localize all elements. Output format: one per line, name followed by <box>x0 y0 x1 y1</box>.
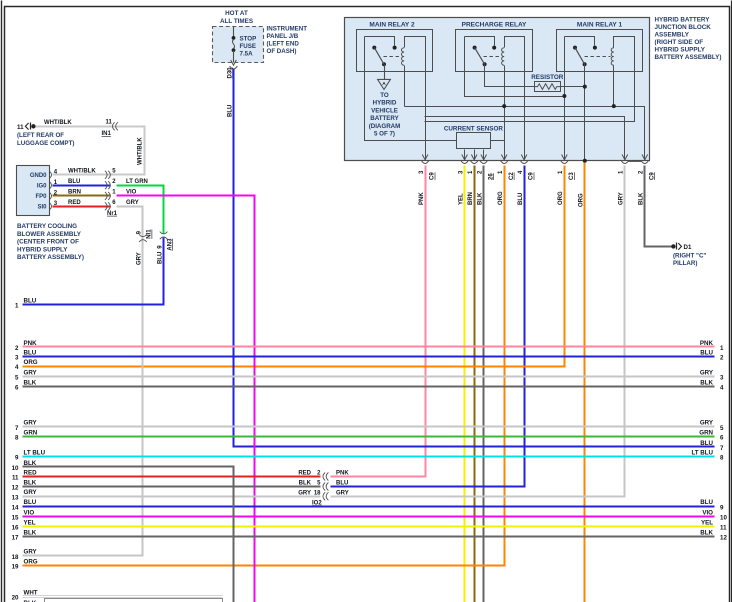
pin 1 BRN at x=474.2 <box>471 155 477 160</box>
svg-text:C9: C9 <box>529 172 535 180</box>
PC coil <box>502 48 505 65</box>
connector Nr1 <box>105 171 110 179</box>
svg-text:PRECHARGE RELAY: PRECHARGE RELAY <box>462 21 527 28</box>
MR1 switch arm <box>575 48 585 65</box>
row wire GRN L8 R6 y=436.7 <box>23 436 715 438</box>
svg-text:YEL: YEL <box>24 519 36 526</box>
svg-text:GRY: GRY <box>700 369 714 376</box>
MR1 fixed contact left <box>573 46 577 50</box>
resistor R box <box>535 82 561 92</box>
svg-text:CURRENT SENSOR: CURRENT SENSOR <box>444 125 504 132</box>
pin 3 C9 PNK at x=425.1 <box>422 155 428 160</box>
svg-text:BLU: BLU <box>336 481 348 487</box>
svg-text:1: 1 <box>15 303 19 310</box>
svg-text:BATTERY COOLING: BATTERY COOLING <box>17 223 77 230</box>
svg-text:19: 19 <box>12 564 19 571</box>
bottom component box (clipped) <box>45 599 223 602</box>
PC contact exit wire to ORG C3 node <box>465 37 565 97</box>
svg-text:4: 4 <box>720 385 724 392</box>
wire LT GRN from Nr1 to AN3 <box>117 186 164 234</box>
svg-text:PNK: PNK <box>24 340 38 347</box>
junction dot PC coil/ORG <box>502 104 506 108</box>
junction dot MR1 coil/ground bus <box>612 104 616 108</box>
wire BLU from pin 4 C9 to IO2 <box>331 166 525 487</box>
svg-text:HYBRID SUPPLY: HYBRID SUPPLY <box>655 47 706 54</box>
svg-text:GRY: GRY <box>24 549 38 556</box>
svg-text:PNK: PNK <box>419 192 425 205</box>
current sensor BRN stub <box>474 150 476 160</box>
wire VIO from Nr1 off-page <box>117 196 255 602</box>
MR2 coil <box>401 48 404 65</box>
PC switch wire to resistor <box>485 65 535 87</box>
PC switch arm <box>475 48 485 65</box>
pin C9 bracket GRY-BLK <box>629 161 642 163</box>
PC contact feed wire <box>465 37 495 46</box>
off-page arrow A to hybrid vehicle battery <box>378 79 391 89</box>
svg-text:2: 2 <box>720 355 724 362</box>
svg-text:INSTRUMENT: INSTRUMENT <box>267 25 308 32</box>
svg-text:(DIAGRAM: (DIAGRAM <box>369 123 401 130</box>
relay K-PC PRECHARGE RELAY box <box>456 30 533 72</box>
svg-text:BLU: BLU <box>24 499 37 506</box>
wire BLU from AN3 to row 1 <box>23 238 164 305</box>
wire BLK from pin 2 C9 to ground D1 <box>645 166 672 247</box>
svg-text:PNK: PNK <box>700 340 714 347</box>
wire BLK row 10 off-page <box>23 467 234 602</box>
MR1 coil bottom wire to ground bus <box>613 66 615 107</box>
wire YEL from current sensor off-page <box>464 166 466 602</box>
MR2 switch arm <box>374 48 384 65</box>
svg-text:STOP: STOP <box>240 35 257 42</box>
blower pin bracket 3 <box>49 203 51 210</box>
svg-text:11: 11 <box>720 525 727 532</box>
svg-text:Nr1: Nr1 <box>107 211 118 217</box>
MR2 common contact <box>382 62 386 66</box>
wire ORG off-page from MR1 switch <box>584 163 586 602</box>
svg-text:BLK: BLK <box>700 379 713 386</box>
svg-text:10: 10 <box>720 515 727 522</box>
row wire VIO L15 R10 y=516.5 <box>23 516 715 518</box>
svg-text:SI0: SI0 <box>37 205 47 211</box>
svg-text:15: 15 <box>12 515 19 522</box>
svg-text:TO: TO <box>380 92 389 99</box>
svg-text:(LEFT REAR OF: (LEFT REAR OF <box>17 132 64 139</box>
svg-text:ORG: ORG <box>558 191 564 205</box>
svg-text:A: A <box>382 81 386 87</box>
row wire BLK L17 R12 y=536.5 <box>23 536 715 538</box>
svg-text:BLU: BLU <box>518 193 524 205</box>
svg-text:7: 7 <box>15 425 19 432</box>
svg-text:BLU: BLU <box>68 179 80 185</box>
current sensor box <box>457 133 491 149</box>
ORG off-page junction dot at box edge <box>583 159 587 163</box>
wire GRY from pin 1 to IO2 <box>331 166 625 497</box>
svg-text:11: 11 <box>106 120 113 126</box>
pin 1 C3 ORG at x=564.4 <box>562 155 568 160</box>
svg-text:C3: C3 <box>569 172 575 180</box>
wire BLU from fuse D30 to row BLU-7R <box>234 69 715 447</box>
svg-text:HYBRID SUPPLY: HYBRID SUPPLY <box>17 246 68 253</box>
MR1 fixed contact right <box>593 46 597 50</box>
row wire WHT L20 y=596.5 <box>23 595 223 597</box>
blower pin bracket 2 <box>49 192 51 199</box>
svg-text:(RIGHT "C": (RIGHT "C" <box>673 253 706 260</box>
svg-text:AN3: AN3 <box>167 238 173 251</box>
wire ORG from pin 1 C3 to row 4 <box>23 166 565 367</box>
svg-text:11: 11 <box>17 124 24 131</box>
svg-text:FP0: FP0 <box>35 194 47 200</box>
coil supply bus to GRY pin 1 <box>425 117 625 160</box>
svg-text:IO2: IO2 <box>312 500 322 506</box>
svg-text:7.5A: 7.5A <box>240 50 254 57</box>
current sensor right wire <box>491 140 505 142</box>
MR2 fixed contact left <box>372 46 376 50</box>
svg-text:GRN: GRN <box>24 430 38 437</box>
svg-text:12: 12 <box>12 485 19 492</box>
row wire GRY L5 R3 y=376.5 <box>23 376 715 378</box>
svg-text:VIO: VIO <box>126 190 137 196</box>
svg-text:9: 9 <box>15 455 19 462</box>
svg-text:BLU: BLU <box>24 349 37 356</box>
svg-text:7: 7 <box>720 445 724 452</box>
svg-text:RED: RED <box>68 200 81 206</box>
svg-text:BRN: BRN <box>468 192 474 205</box>
PC coil top wire to BLU pin 4 C9 <box>505 37 525 160</box>
svg-text:BLU: BLU <box>700 499 713 506</box>
MR2 switch wire to battery arrow <box>384 65 386 80</box>
junction dot resistor/MR1 switch <box>583 85 587 89</box>
svg-text:GRY: GRY <box>336 491 349 497</box>
row wire BLK L12 R- y=486.5 <box>23 486 321 488</box>
row wire GRY L7 R5 y=426.8 <box>23 426 715 428</box>
svg-text:BLK: BLK <box>24 379 37 386</box>
MR1 coil <box>611 48 614 65</box>
svg-text:NI1: NI1 <box>147 229 153 239</box>
svg-text:HYBRID: HYBRID <box>373 100 397 107</box>
svg-text:C9: C9 <box>430 172 436 180</box>
row wire BLU L3 R2 y=356.5 <box>23 356 715 358</box>
pin 3 YEL at x=464.6 <box>462 155 468 160</box>
svg-text:IN1: IN1 <box>102 131 112 137</box>
svg-text:9: 9 <box>720 504 724 511</box>
svg-text:BATTERY: BATTERY <box>370 115 399 122</box>
current sensor YEL stub <box>464 150 466 160</box>
relay K-MR2 MAIN RELAY 2 box <box>357 30 433 72</box>
connector IN1 <box>112 122 117 130</box>
connector AN3 LT GRN to BLU <box>160 232 168 240</box>
svg-text:FUSE: FUSE <box>240 43 257 50</box>
svg-text:RED: RED <box>24 469 38 476</box>
svg-text:GND0: GND0 <box>30 173 47 179</box>
stop fuse 7.5A <box>233 27 235 39</box>
svg-text:BATTERY ASSEMBLY): BATTERY ASSEMBLY) <box>655 54 722 61</box>
svg-text:BLK: BLK <box>700 529 713 536</box>
svg-text:3: 3 <box>720 375 724 382</box>
pin 2 26 BLK at x=483.7 <box>481 155 487 160</box>
wire PNK from pin 3 C9 to IO2 <box>331 166 426 477</box>
svg-text:17: 17 <box>12 535 19 542</box>
svg-text:ASSEMBLY: ASSEMBLY <box>655 32 690 39</box>
wire BRN from current sensor off-page <box>474 166 476 602</box>
svg-text:BLK: BLK <box>299 481 312 487</box>
svg-text:VIO: VIO <box>702 509 713 516</box>
svg-text:BLU: BLU <box>700 349 713 356</box>
svg-text:GRY: GRY <box>24 369 38 376</box>
MR2 contact exit wire to current sensor <box>365 37 457 141</box>
svg-text:WHT/BLK: WHT/BLK <box>138 137 144 165</box>
svg-text:LT BLU: LT BLU <box>24 450 46 457</box>
page border frame <box>1 1 3 602</box>
svg-text:18: 18 <box>12 554 19 561</box>
wire BLK from current sensor off-page <box>483 166 485 602</box>
svg-text:PANEL J/B: PANEL J/B <box>267 33 299 40</box>
PC coil bottom wire to ORG pin 1 C2 <box>504 66 506 160</box>
pin 1 GRY at x=624.9 <box>622 155 628 160</box>
pin 1 C2 ORG at x=504.2 <box>501 155 507 160</box>
svg-text:RESISTOR: RESISTOR <box>531 74 564 81</box>
current sensor BLK stub <box>483 150 485 160</box>
svg-text:(RIGHT SIDE OF: (RIGHT SIDE OF <box>655 39 704 46</box>
svg-text:YEL: YEL <box>701 519 713 526</box>
svg-text:HOT AT: HOT AT <box>225 10 248 17</box>
battery cooling blower assembly box <box>17 166 50 216</box>
svg-text:3: 3 <box>15 355 19 362</box>
PC fixed contact left <box>473 46 477 50</box>
svg-text:(LEFT END: (LEFT END <box>267 40 300 47</box>
MR2 fixed contact right <box>393 46 397 50</box>
svg-text:D30: D30 <box>227 67 233 79</box>
svg-text:WHT/BLK: WHT/BLK <box>68 169 96 175</box>
MR1 contact exit wire to ORG pin 1 C3 <box>564 37 566 160</box>
svg-text:LT GRN: LT GRN <box>126 179 148 185</box>
svg-text:ORG: ORG <box>24 558 38 565</box>
resistor element <box>534 84 561 90</box>
svg-text:HYBRID BATTERY: HYBRID BATTERY <box>655 17 711 24</box>
svg-text:IG0: IG0 <box>37 184 47 190</box>
svg-text:BLU: BLU <box>227 105 233 117</box>
hybrid battery junction block assembly box <box>345 18 650 161</box>
svg-text:26: 26 <box>488 173 494 180</box>
svg-text:BLU: BLU <box>24 297 37 304</box>
svg-text:BLU: BLU <box>700 440 713 447</box>
svg-text:MAIN RELAY 2: MAIN RELAY 2 <box>369 21 415 28</box>
svg-text:ALL TIMES: ALL TIMES <box>220 18 253 25</box>
svg-text:LT BLU: LT BLU <box>691 450 713 457</box>
svg-text:GRY: GRY <box>24 489 38 496</box>
row wire RED L11 R- y=476.5 <box>23 476 321 478</box>
svg-text:MAIN RELAY 1: MAIN RELAY 1 <box>577 21 623 28</box>
MR2 contact feed wire (pin to right contact) <box>365 37 395 46</box>
svg-text:18: 18 <box>314 491 321 497</box>
svg-text:2: 2 <box>15 345 19 352</box>
svg-text:16: 16 <box>12 525 19 532</box>
svg-text:BLK: BLK <box>24 529 37 536</box>
row wire YEL L16 R11 y=526.5 <box>23 526 715 528</box>
svg-text:5: 5 <box>720 425 724 432</box>
row wire BLK L6 R4 y=386.5 <box>23 386 715 388</box>
MR1 common contact <box>583 62 587 66</box>
svg-text:JUNCTION BLOCK: JUNCTION BLOCK <box>655 24 712 31</box>
svg-text:BATTERY ASSEMBLY): BATTERY ASSEMBLY) <box>17 254 84 261</box>
svg-text:GRY: GRY <box>126 200 139 206</box>
resistor output wire <box>561 86 585 88</box>
svg-text:GRY: GRY <box>700 420 714 427</box>
svg-text:WHT: WHT <box>24 589 38 596</box>
wire WHT/BLK ground to blower GND0 <box>36 127 145 175</box>
svg-text:C2: C2 <box>509 172 515 180</box>
svg-text:RED: RED <box>298 471 311 477</box>
row wire LT BLU L9 R8 y=456.7 <box>23 456 715 458</box>
svg-text:5: 5 <box>15 375 19 382</box>
pin 4 C9 BLU at x=524.1 <box>521 155 527 160</box>
svg-text:4: 4 <box>15 364 19 371</box>
MR2 coil top wire to PNK pin 3 C9 <box>405 37 426 160</box>
wire RED SI0 <box>53 206 111 208</box>
MR2 coil bottom wire to ground bus <box>404 66 406 107</box>
svg-text:VIO: VIO <box>24 509 35 516</box>
wire BLU IG0 <box>53 185 111 187</box>
svg-text:GRY: GRY <box>137 252 143 265</box>
svg-text:1: 1 <box>720 345 724 352</box>
blower pin bracket 1 <box>49 182 51 189</box>
fuse output arrow and connector D30 <box>231 60 237 65</box>
wire BRN FP0 <box>53 195 111 197</box>
MR1 contact feed wire <box>565 37 595 46</box>
wire GRY from Nr1 through NI1 to row 18 <box>23 207 143 556</box>
coil ground bus to BLK pin 2 C9 <box>405 107 645 160</box>
connector NI1 on GRY wire <box>139 234 147 242</box>
svg-text:GRN: GRN <box>699 430 713 437</box>
svg-text:GRY: GRY <box>298 491 311 497</box>
svg-text:13: 13 <box>12 494 19 501</box>
svg-text:PILLAR): PILLAR) <box>673 260 697 267</box>
MR1 coil top wire to coil supply bus <box>425 37 635 122</box>
svg-text:BLOWER ASSEMBLY: BLOWER ASSEMBLY <box>17 231 82 238</box>
PC common contact <box>483 62 487 66</box>
row wire BLU L14 R9 y=506.3 <box>23 506 715 508</box>
svg-text:20: 20 <box>12 595 19 602</box>
svg-text:12: 12 <box>720 535 727 542</box>
svg-text:6: 6 <box>15 385 19 392</box>
ground D1 right C pillar <box>671 244 675 248</box>
svg-text:OF DASH): OF DASH) <box>267 48 297 55</box>
row wire GRY L13 R- y=496.3 <box>23 496 321 498</box>
svg-text:BLK: BLK <box>24 479 37 486</box>
PC fixed contact right <box>492 46 496 50</box>
svg-text:C9: C9 <box>649 172 655 180</box>
svg-text:(CENTER FRONT OF: (CENTER FRONT OF <box>17 239 79 246</box>
MR2 actuation dashed link <box>384 56 401 58</box>
svg-text:ORG: ORG <box>24 359 38 366</box>
svg-text:ORG: ORG <box>498 191 504 205</box>
svg-text:GRY: GRY <box>24 420 38 427</box>
svg-text:D1: D1 <box>684 244 692 251</box>
svg-text:WHT/BLK: WHT/BLK <box>44 120 72 126</box>
wire ORG from pin 1 C2 to row 19 <box>23 166 505 566</box>
MR1 switch wire to ORG off-page <box>584 65 586 161</box>
junction dot MR1 exit/PC exit node <box>562 94 566 98</box>
svg-text:PNK: PNK <box>336 471 349 477</box>
svg-text:5 OF 7): 5 OF 7) <box>374 131 395 138</box>
instrument panel J/B fuse box <box>213 27 264 63</box>
pin 2 C9 BLK at x=644.8 <box>642 155 648 160</box>
svg-text:8: 8 <box>720 455 724 462</box>
svg-text:10: 10 <box>12 465 19 472</box>
svg-text:LUGGAGE COMPT): LUGGAGE COMPT) <box>17 140 74 147</box>
svg-text:14: 14 <box>12 504 19 511</box>
MR1 actuation dashed link <box>585 56 611 58</box>
row wire PNK L2 R1 y=347.0 <box>23 346 715 348</box>
svg-text:VEHICLE: VEHICLE <box>371 107 398 114</box>
relay K-MR1 MAIN RELAY 1 box <box>557 30 643 72</box>
PC actuation dashed link <box>484 56 501 58</box>
svg-text:11: 11 <box>12 475 19 482</box>
blower pin bracket 4 <box>49 171 51 178</box>
svg-text:8: 8 <box>15 435 19 442</box>
svg-text:6: 6 <box>720 435 724 442</box>
